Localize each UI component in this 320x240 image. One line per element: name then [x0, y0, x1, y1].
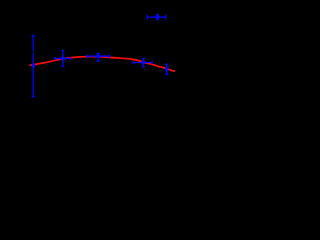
data point P5 marker	[165, 67, 168, 70]
legend marker	[156, 15, 159, 18]
data point P1 marker	[32, 64, 35, 67]
data point P1 error bar (y)	[32, 36, 35, 97]
data point P3 error bars (x and y)	[87, 54, 110, 61]
red fit curve	[29, 57, 175, 71]
data point P3 marker	[97, 55, 100, 58]
data point P5 error bar (y)	[165, 64, 168, 74]
data point P4 error bars (x and y)	[133, 58, 152, 66]
data point P2 error bars (x and y)	[55, 51, 70, 67]
data point P4 marker	[142, 61, 145, 64]
legend errorbar sample	[147, 15, 166, 20]
data point P2 marker	[61, 57, 64, 60]
